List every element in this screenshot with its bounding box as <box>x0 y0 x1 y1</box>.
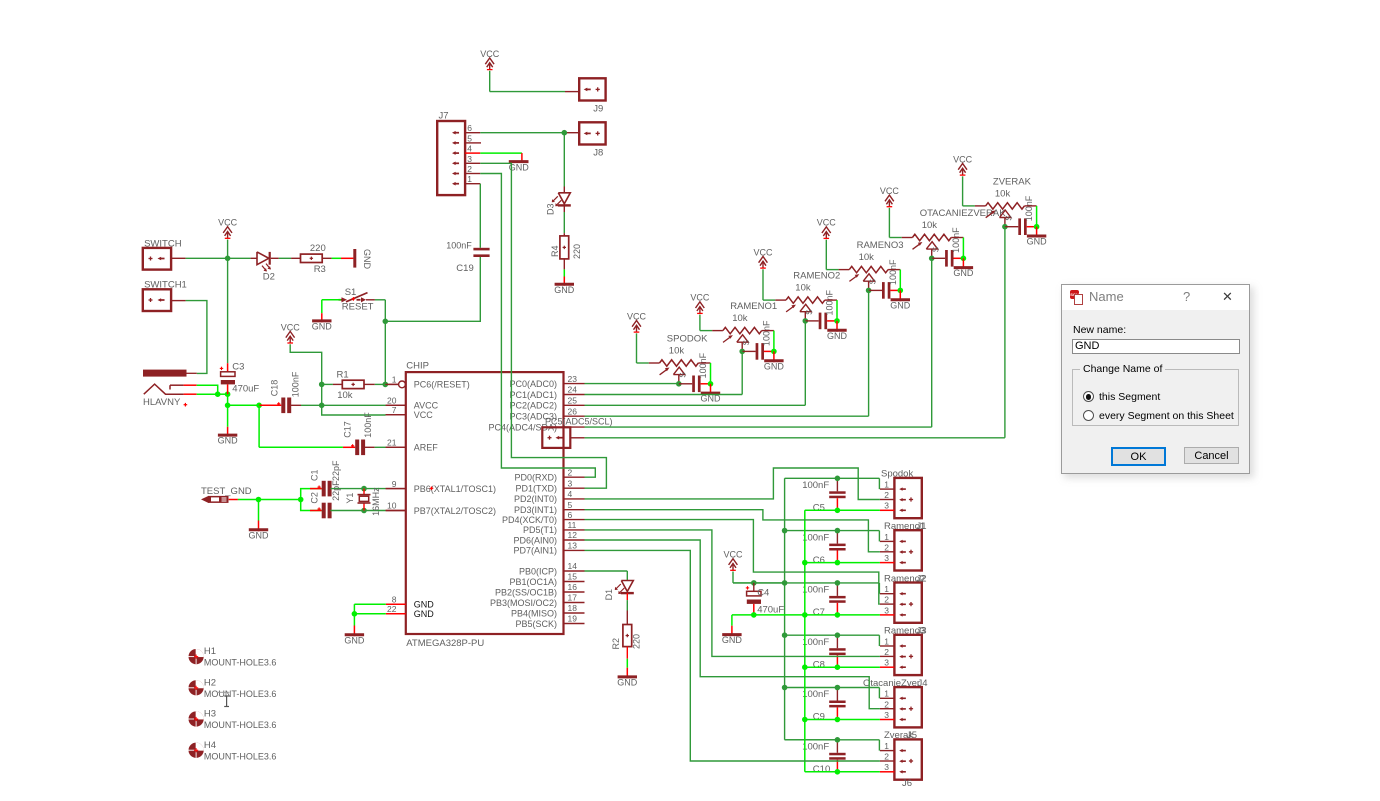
LED D2 <box>257 252 275 283</box>
chip pin 12 PD6(AIN0) (right) <box>513 530 584 545</box>
wire PD4 to Rameno2 pin2 <box>585 520 880 605</box>
designator J1 overlapping (ZVERAK arrow area) <box>0 0 1 1</box>
svg-text:PC5(ADC5/SCL): PC5(ADC5/SCL) <box>545 417 613 427</box>
svg-text:D3: D3 <box>546 203 556 215</box>
svg-text:PC1(ADC1): PC1(ADC1) <box>509 390 557 400</box>
wire VCC flag to chip supply rails <box>290 344 406 415</box>
svg-text:220: 220 <box>632 634 642 649</box>
radio every Segment on this Sheet <box>1083 407 1234 425</box>
svg-text:10k: 10k <box>337 390 353 401</box>
wire to ground below <box>227 405 229 427</box>
svg-text:1: 1 <box>467 174 472 184</box>
svg-text:1: 1 <box>884 689 889 699</box>
svg-text:100nF: 100nF <box>1024 195 1034 221</box>
svg-text:TEST_GND: TEST_GND <box>201 486 252 497</box>
svg-text:100nF: 100nF <box>825 289 835 315</box>
wire SPODOK wiper to node <box>678 375 680 384</box>
junction at SWITCH/VCC <box>225 255 231 261</box>
wire R1 to RESET junction <box>364 383 385 385</box>
svg-text:9: 9 <box>392 479 397 489</box>
chip pin 8 GND (left) <box>386 594 435 609</box>
capacitor C9 100nF at OtacanieZver <box>802 688 845 723</box>
wire D3 to R4 <box>563 205 565 236</box>
wire Rameno1 pin1 supply jog <box>785 531 895 542</box>
junction XTAL1 <box>361 486 367 492</box>
svg-text:5: 5 <box>467 133 472 143</box>
svg-text:J4: J4 <box>918 678 928 689</box>
svg-text:26: 26 <box>568 406 578 416</box>
svg-text:R4: R4 <box>550 245 560 257</box>
svg-text:RAMENO1: RAMENO1 <box>730 301 777 312</box>
wire C1 to PB6 <box>364 488 406 490</box>
chip pin 6 PD4(XCK/T0) (right) <box>502 510 585 525</box>
svg-text:100nF: 100nF <box>802 742 829 753</box>
connector J7 pin 4 <box>452 144 480 155</box>
svg-text:GND: GND <box>722 635 743 645</box>
svg-text:H2: H2 <box>204 677 216 688</box>
junction C18/AREF branch <box>256 403 262 409</box>
ground symbol below R4 <box>554 277 575 295</box>
power flag VCC (RAMENO1) <box>690 293 710 314</box>
wire J7 pin4 to GND (highlighted) <box>480 152 522 154</box>
svg-text:H1: H1 <box>204 646 216 657</box>
wire Rameno3 pin1 supply jog <box>785 635 895 646</box>
svg-text:24: 24 <box>568 385 578 395</box>
svg-text:C7: C7 <box>813 607 825 618</box>
origin cross near XTAL1 text <box>430 487 434 491</box>
wire PD3 to Rameno1 pin2 <box>585 510 880 552</box>
svg-text:2: 2 <box>884 752 889 762</box>
connector J8 <box>579 122 605 158</box>
wire to crystal caps <box>259 499 301 501</box>
svg-text:220: 220 <box>310 243 326 254</box>
svg-text:100nF: 100nF <box>802 689 829 700</box>
svg-text:ZVERAK: ZVERAK <box>993 177 1032 188</box>
junction VCC at R1 row <box>319 382 325 388</box>
svg-text:GND: GND <box>218 436 239 446</box>
svg-text:8: 8 <box>392 594 397 604</box>
switch S1 RESET <box>339 287 374 312</box>
svg-text:PC2(ADC2): PC2(ADC2) <box>509 401 557 411</box>
wire PC0 net to SPODOK <box>585 383 679 385</box>
svg-text:PD6(AIN0): PD6(AIN0) <box>513 535 557 545</box>
svg-text:S: S <box>932 247 941 252</box>
connector Rameno2 (J2) body <box>884 573 927 623</box>
svg-text:GND: GND <box>362 249 372 270</box>
power flag VCC (top, J9) <box>480 49 500 70</box>
connector Rameno1 (J1) body <box>884 521 927 571</box>
svg-text:VCC: VCC <box>414 410 434 420</box>
ground symbol below chip <box>344 614 365 646</box>
svg-text:J8: J8 <box>593 148 603 159</box>
wire VCC to trimmer OTACANIEZVERAK <box>889 208 912 238</box>
GND distribution vertical (highlighted) <box>804 510 806 772</box>
power flag VCC (left of chip) <box>281 322 301 343</box>
svg-text:100nF: 100nF <box>698 352 708 378</box>
wire OtacanieZver pin2 stub <box>880 708 895 710</box>
svg-text:3: 3 <box>467 154 472 164</box>
svg-text:RESET: RESET <box>342 302 374 313</box>
svg-text:S1: S1 <box>345 287 357 298</box>
power jack HLAVNY <box>143 370 197 409</box>
ground symbol below R2 <box>617 668 638 688</box>
svg-text:470uF: 470uF <box>757 604 784 615</box>
connector J7 pin 1 <box>452 174 480 185</box>
chip pin 20 AVCC (left) <box>386 396 439 411</box>
wire SWITCH to VCC junction <box>171 257 228 259</box>
wire RAMENO3 right terminal down <box>888 270 900 291</box>
chip pin 4 PD2(INT0) (right) <box>514 489 585 504</box>
dialog window Name <box>1061 284 1250 474</box>
wire D2 to R3 <box>271 257 301 259</box>
junction C4 top <box>751 580 757 586</box>
svg-text:100nF: 100nF <box>802 637 829 648</box>
svg-text:10k: 10k <box>922 220 938 231</box>
svg-text:PB5(SCK): PB5(SCK) <box>515 619 557 629</box>
wire S1 left to ground <box>322 300 341 313</box>
capacitor C6 100nF at Rameno1 <box>802 531 845 566</box>
junction C5 top <box>835 476 841 482</box>
wire RESET node down to R1/PC6 <box>384 321 386 384</box>
junction C4 bottom (GND rail) <box>751 612 757 618</box>
chip pin 11 PD5(T1) (right) <box>523 520 585 535</box>
wire Spodok pin2 stub <box>880 499 895 501</box>
svg-text:GND: GND <box>414 600 435 610</box>
wire VCC to trimmer ZVERAK <box>963 176 986 206</box>
chip pin 14 PB0(ICP) (right) <box>519 561 585 576</box>
junction C8 top <box>835 632 841 638</box>
junction XTAL2 <box>361 508 367 514</box>
junction crystal cap branch <box>298 497 304 503</box>
svg-text:100nF: 100nF <box>446 240 472 250</box>
svg-text:C19: C19 <box>456 263 473 274</box>
svg-text:3: 3 <box>884 710 889 720</box>
svg-text:SWITCH1: SWITCH1 <box>144 280 187 291</box>
chip pin 18 PB4(MISO) (right) <box>511 603 585 618</box>
trimmer potentiometer SPODOK 10k <box>660 334 709 378</box>
wire VCC to trimmer RAMENO1 <box>700 315 723 331</box>
IC designator label CHIP <box>406 361 429 372</box>
chip pin 21 AREF (left) <box>386 438 439 453</box>
power flag VCC (ZVERAK) <box>953 154 973 175</box>
wire Rameno3 pin3 ground (highlighted) <box>805 666 895 668</box>
jumper connector on PC5 <box>542 427 584 448</box>
svg-text:1: 1 <box>884 636 889 646</box>
PC5 net label <box>545 417 613 427</box>
wire PC5 net to ZVERAK <box>585 227 1005 438</box>
svg-text:PD1(TXD): PD1(TXD) <box>515 484 557 494</box>
junction RAMENO3 wiper <box>866 288 872 294</box>
svg-text:C18: C18 <box>270 380 280 397</box>
svg-text:RAMENO3: RAMENO3 <box>857 240 904 251</box>
svg-text:25: 25 <box>568 396 578 406</box>
svg-text:3: 3 <box>884 553 889 563</box>
svg-text:3: 3 <box>884 762 889 772</box>
svg-text:MOUNT-HOLE3.6: MOUNT-HOLE3.6 <box>204 720 277 730</box>
capacitor C7 100nF at Rameno2 <box>802 583 845 618</box>
wire Zverak pin1 supply jog <box>785 740 895 751</box>
wire AREF branch down and right (highlighted) <box>259 405 343 447</box>
svg-text:SPODOK: SPODOK <box>667 334 708 345</box>
junction C8 bottom <box>835 664 841 670</box>
wire Rameno3 pin2 stub <box>880 655 895 657</box>
wire PC1 net to RAMENO1 <box>585 351 743 394</box>
svg-text:Spodok: Spodok <box>881 469 913 480</box>
svg-text:R1: R1 <box>337 370 349 381</box>
svg-text:PC0(ADC0): PC0(ADC0) <box>509 379 557 389</box>
EAGLE icon <box>1070 290 1083 304</box>
junction at J8 pin <box>562 130 568 136</box>
wire OTACANIEZVERAK wiper to node <box>931 249 933 258</box>
svg-text:10k: 10k <box>859 252 875 263</box>
connector J7 pin 5 <box>452 133 481 144</box>
junction GND vertical <box>802 560 808 566</box>
svg-text:MOUNT-HOLE3.6: MOUNT-HOLE3.6 <box>204 751 277 761</box>
wire Rameno2 pin1 supply jog <box>733 583 894 594</box>
svg-text:6: 6 <box>467 123 472 133</box>
value labels 22pF 22pF <box>331 460 341 501</box>
junction C6 bottom <box>835 560 841 566</box>
capacitor C1 22pF <box>301 469 364 499</box>
text input GND <box>1072 339 1240 354</box>
junction ZVERAK ground node <box>1034 224 1040 230</box>
wire PD7 to Zverak pin2 <box>585 550 880 761</box>
chip pin 7 VCC (left) <box>386 405 434 420</box>
button OK <box>1111 447 1166 466</box>
chip pin 13 PD7(AIN1) (right) <box>513 541 584 556</box>
svg-text:PD7(AIN1): PD7(AIN1) <box>513 546 557 556</box>
wire PC3 net to RAMENO3 <box>585 290 869 416</box>
svg-text:J2: J2 <box>917 573 927 584</box>
wire PD2 to Spodok pin2 <box>585 468 880 500</box>
wire jack sleeve to node (highlighted) <box>184 393 218 395</box>
wire chip GND pins to ground (highlighted) <box>354 604 385 614</box>
junction VCC vertical <box>782 632 788 638</box>
wire RAMENO1 right terminal down <box>762 331 774 352</box>
svg-text:1: 1 <box>884 741 889 751</box>
test point TEST_GND <box>201 486 252 503</box>
power flag VCC (SPODOK) <box>627 311 647 332</box>
svg-text:PD5(T1): PD5(T1) <box>523 525 557 535</box>
svg-text:5: 5 <box>568 500 573 510</box>
svg-text:C1: C1 <box>309 469 319 481</box>
svg-text:3: 3 <box>884 605 889 615</box>
wire ZVERAK right terminal down <box>1024 206 1036 227</box>
svg-text:7: 7 <box>392 405 397 415</box>
ground symbol at RAMENO1 <box>764 351 785 371</box>
junction SPODOK wiper <box>676 381 682 387</box>
capacitor 100nF at RAMENO3 <box>869 259 901 299</box>
wire VCC to trimmer RAMENO2 <box>763 269 786 300</box>
svg-text:C8: C8 <box>813 659 825 670</box>
svg-text:6: 6 <box>568 510 573 520</box>
wire Rameno2 pin2 stub <box>880 603 895 605</box>
mount hole H4 <box>189 740 277 762</box>
wire SWITCH1 down to jack <box>171 301 207 374</box>
junction C3 bottom <box>225 391 231 397</box>
wire RAMENO2 wiper to node <box>804 312 806 321</box>
svg-text:PD2(INT0): PD2(INT0) <box>514 494 557 504</box>
junction RAMENO3 ground node <box>898 288 904 294</box>
svg-text:100nF: 100nF <box>802 585 829 596</box>
svg-text:D1: D1 <box>604 589 614 601</box>
chip pin 2 PD0(RXD) (right) <box>514 467 584 482</box>
wire VCC to R1 <box>322 383 343 385</box>
svg-text:S: S <box>868 279 877 284</box>
svg-text:16: 16 <box>568 582 578 592</box>
svg-text:J1: J1 <box>917 521 927 532</box>
svg-text:J7: J7 <box>439 111 449 122</box>
junction C10 bottom <box>835 769 841 775</box>
junction C10 top <box>835 737 841 743</box>
svg-text:C2: C2 <box>309 492 319 504</box>
chip pin 5 PD3(INT1) (right) <box>514 500 585 515</box>
wire R2 to ground (highlighted) <box>626 647 628 668</box>
wire J7 pin1 down to C19 <box>479 184 481 248</box>
svg-text:100nF: 100nF <box>363 412 373 438</box>
svg-text:10k: 10k <box>995 189 1011 200</box>
ground symbol at RAMENO3 <box>890 290 911 310</box>
junction OTACANIEZVERAK ground node <box>961 255 967 261</box>
junction chip GND <box>352 611 358 617</box>
svg-text:PD0(RXD): PD0(RXD) <box>514 473 557 483</box>
junction VCC vertical <box>782 685 788 691</box>
wire node to C3 node <box>218 393 228 395</box>
svg-text:CHIP: CHIP <box>406 361 429 372</box>
svg-text:C6: C6 <box>813 555 825 566</box>
ground symbol at SPODOK <box>701 384 722 404</box>
svg-text:13: 13 <box>568 541 578 551</box>
chip pin 25 PC2(ADC2) (right) <box>509 396 584 411</box>
svg-text:3: 3 <box>884 501 889 511</box>
power flag VCC (switch) <box>218 218 238 239</box>
svg-text:2: 2 <box>884 699 889 709</box>
svg-text:J3: J3 <box>917 626 927 637</box>
text cursor artifact <box>217 692 229 706</box>
ground symbol right of R3 (rotated) <box>355 249 372 270</box>
junction ZVERAK wiper <box>1002 224 1008 230</box>
IC value label ATMEGA328P-PU <box>406 638 484 649</box>
capacitor C18 100nF <box>259 371 322 413</box>
svg-text:2: 2 <box>568 467 573 477</box>
junction TEST_GND <box>256 497 262 503</box>
svg-text:C10: C10 <box>813 764 830 775</box>
junction GND vertical <box>802 664 808 670</box>
wire D1 to R2 <box>626 593 628 624</box>
wire J8 node down to LED D3 <box>563 133 565 187</box>
connector J7 pin 6 <box>452 123 480 134</box>
svg-text:PB3(MOSI/OC2): PB3(MOSI/OC2) <box>490 598 557 608</box>
svg-text:22: 22 <box>387 604 397 614</box>
svg-text:10k: 10k <box>795 283 811 294</box>
chip pin 17 PB3(MOSI/OC2) (right) <box>490 593 585 608</box>
resistor R2 220 <box>611 625 642 650</box>
svg-text:J5: J5 <box>907 730 917 741</box>
wire PD5 to Rameno3 pin2 <box>585 530 880 657</box>
svg-text:220: 220 <box>572 244 582 259</box>
chip pin 16 PB2(SS/OC1B) (right) <box>495 582 585 597</box>
wire J7 pin3 to PD1 <box>480 163 606 488</box>
chip pin 19 PB5(SCK) (right) <box>515 614 584 629</box>
svg-text:RAMENO2: RAMENO2 <box>793 271 840 282</box>
connector Rameno3 (J3) body <box>884 626 927 676</box>
svg-text:R3: R3 <box>314 264 326 275</box>
chip pin 27 PC4(ADC4/SDA) (right) <box>488 422 584 432</box>
resistor R1 10k <box>337 370 365 402</box>
svg-text:S: S <box>1005 215 1014 220</box>
wire J7 pin2 to PD0 <box>480 174 595 478</box>
wire GND rail to ground symbol <box>732 615 754 626</box>
junction C9 top <box>835 685 841 691</box>
crystal Y1 16MHz <box>345 487 381 516</box>
wire junction to PC6 pin <box>385 383 398 385</box>
junction GND vertical <box>802 612 808 618</box>
svg-text:100nF: 100nF <box>290 371 300 397</box>
svg-text:100nF: 100nF <box>888 259 898 285</box>
capacitor 100nF at SPODOK <box>679 352 711 392</box>
chip pin 10 PB7(XTAL2/TOSC2) (left) <box>386 501 496 516</box>
wire test point to GND net <box>229 499 259 501</box>
svg-text:17: 17 <box>568 593 578 603</box>
switch box SWITCH1 <box>143 280 187 311</box>
switch box SWITCH <box>143 238 182 269</box>
connector OtacanieZver (J4) body <box>863 678 928 727</box>
connector J7 pin 2 <box>452 164 480 175</box>
capacitor C8 100nF at Rameno3 <box>802 635 845 670</box>
svg-text:C17: C17 <box>342 421 352 438</box>
trimmer potentiometer OTACANIEZVERAK 10k <box>912 208 1006 252</box>
svg-text:H3: H3 <box>204 709 216 720</box>
svg-text:J9: J9 <box>593 104 603 115</box>
chip pin 24 PC1(ADC1) (right) <box>509 385 584 400</box>
svg-text:4: 4 <box>467 144 472 154</box>
svg-text:H4: H4 <box>204 740 216 751</box>
svg-text:18: 18 <box>568 603 578 613</box>
wire OtacanieZver pin3 ground (highlighted) <box>805 719 895 721</box>
wire ZVERAK wiper to node <box>1004 218 1006 227</box>
power flag VCC (OTACANIEZVERAK) <box>880 186 900 207</box>
junction SPODOK ground node <box>708 381 714 387</box>
junction RAMENO2 ground node <box>834 318 840 324</box>
mount hole H2 <box>189 677 277 699</box>
capacitor 100nF at RAMENO1 <box>742 320 774 360</box>
connector Spodok (J6) body <box>881 469 922 519</box>
button Cancel <box>1184 447 1239 464</box>
svg-text:PB2(SS/OC1B): PB2(SS/OC1B) <box>495 587 557 597</box>
svg-text:GND: GND <box>344 635 365 645</box>
svg-text:470uF: 470uF <box>232 383 259 394</box>
svg-text:GND: GND <box>827 331 848 341</box>
svg-text:PD4(XCK/T0): PD4(XCK/T0) <box>502 515 557 525</box>
junction RAMENO2 wiper <box>803 318 809 324</box>
ground symbol near J7 pin4 <box>509 153 530 172</box>
svg-text:GND: GND <box>414 609 435 619</box>
LED D1 <box>604 581 634 601</box>
svg-text:C3: C3 <box>232 362 244 373</box>
ground symbol below C3 <box>218 427 239 446</box>
wire R3 to ground (highlighted) <box>322 257 353 259</box>
chip pin 1 PC6(/RESET) (left) <box>385 375 470 390</box>
capacitor 100nF at RAMENO2 <box>805 289 837 329</box>
power flag VCC (servo connectors) <box>723 550 743 571</box>
wire jack pin to node (highlighted) <box>184 385 218 394</box>
wire VCC to C4 rail <box>733 572 785 583</box>
junction VCC at AVCC row <box>319 403 325 409</box>
svg-text:22pF: 22pF <box>331 460 341 481</box>
wire PC2 net to RAMENO2 <box>585 321 806 405</box>
svg-text:1: 1 <box>884 480 889 490</box>
svg-text:GND: GND <box>890 300 911 310</box>
